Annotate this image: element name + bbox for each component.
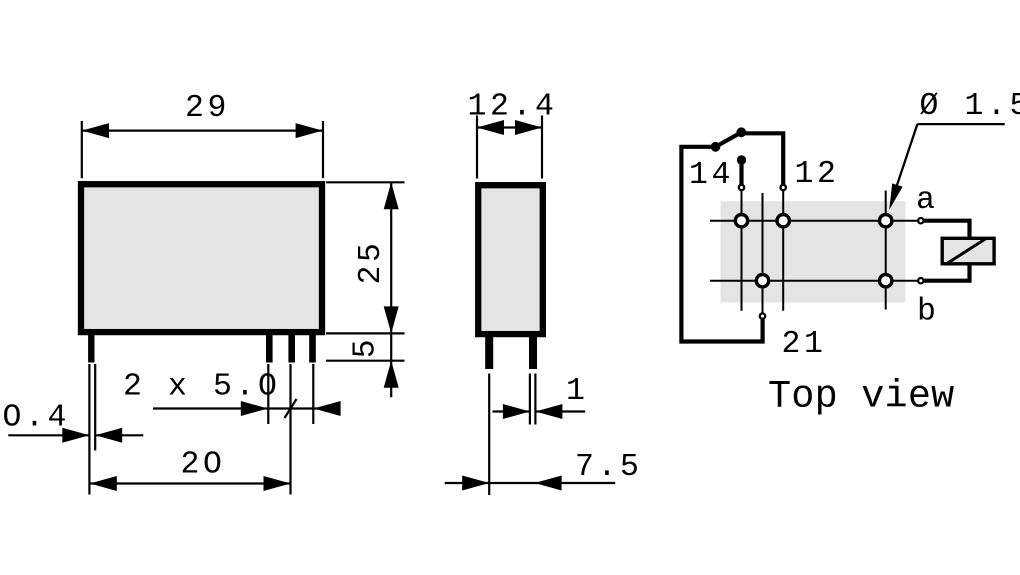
svg-text:2O: 2O <box>181 448 226 483</box>
svg-text:21: 21 <box>782 327 827 362</box>
svg-text:14: 14 <box>689 158 734 193</box>
svg-text:a: a <box>916 183 939 218</box>
svg-text:1: 1 <box>566 374 589 409</box>
svg-text:12.4: 12.4 <box>468 90 558 125</box>
svg-text:O.4: O.4 <box>3 401 71 436</box>
svg-text:5: 5 <box>349 336 384 359</box>
svg-text:Ø 1.5: Ø 1.5 <box>920 89 1020 124</box>
svg-text:2 x 5.O: 2 x 5.O <box>123 370 281 405</box>
svg-text:29: 29 <box>185 91 230 126</box>
svg-text:12: 12 <box>795 157 840 192</box>
svg-text:7.5: 7.5 <box>575 450 643 485</box>
svg-text:Top view: Top view <box>768 375 954 419</box>
svg-text:25: 25 <box>354 239 389 284</box>
svg-text:b: b <box>917 295 940 330</box>
